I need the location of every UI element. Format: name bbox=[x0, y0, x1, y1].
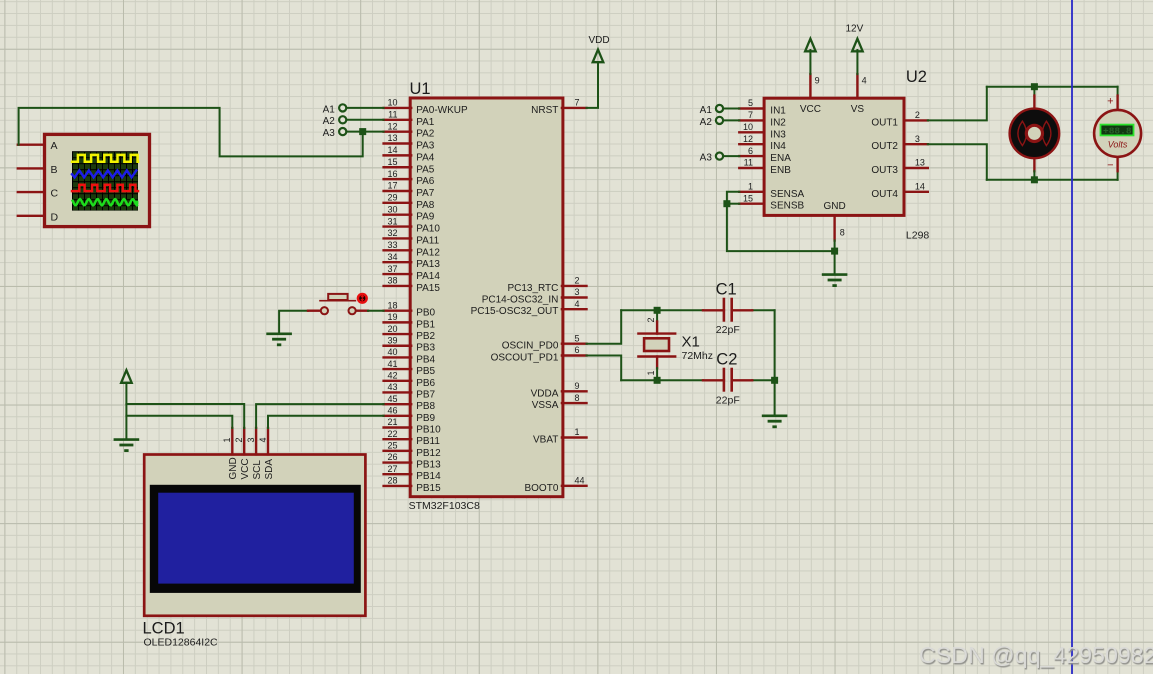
svg-text:13: 13 bbox=[915, 158, 925, 168]
wire terminal A3 to U2 bbox=[723, 155, 739, 157]
svg-text:U2: U2 bbox=[906, 68, 927, 86]
U1 pin 39 PB3 stub bbox=[384, 345, 412, 347]
power symbol arrow above VCC bbox=[805, 39, 816, 52]
svg-text:44: 44 bbox=[575, 476, 585, 486]
node junction crystal top bbox=[654, 307, 661, 314]
node junction GND net bbox=[831, 248, 838, 255]
voltmeter body bbox=[1094, 110, 1141, 157]
U1 pin 12 PA2 stub bbox=[384, 130, 412, 132]
U1 pin 18 PB0 stub bbox=[384, 310, 412, 312]
svg-text:C: C bbox=[51, 188, 59, 200]
svg-text:PC13_RTC: PC13_RTC bbox=[507, 283, 558, 294]
wire U2 GND pin down bbox=[834, 241, 836, 275]
svg-text:ENA: ENA bbox=[770, 153, 791, 164]
LCD1 pin 3 stub bbox=[255, 428, 257, 454]
svg-text:17: 17 bbox=[387, 181, 397, 191]
U1 pin 22 PB11 stub bbox=[384, 438, 412, 440]
svg-text:PA11: PA11 bbox=[416, 235, 439, 246]
wire voltmeter bottom rise bbox=[1117, 171, 1119, 180]
svg-text:PA12: PA12 bbox=[416, 247, 440, 258]
svg-text:PC15-OSC32_OUT: PC15-OSC32_OUT bbox=[471, 306, 559, 317]
wire LCD VCC branch bbox=[126, 404, 244, 428]
oscilloscope waveform channel B blue triangle bbox=[72, 170, 136, 177]
svg-text:A1: A1 bbox=[700, 105, 713, 116]
svg-text:X1: X1 bbox=[682, 333, 700, 350]
svg-text:−: − bbox=[1107, 160, 1113, 172]
node junction right rail bottom bbox=[771, 377, 778, 384]
U2 pin 1 SENSA stub bbox=[739, 191, 764, 193]
oscilloscope screen background bbox=[72, 151, 138, 210]
ground symbol crystal network bbox=[762, 416, 788, 427]
svg-text:72Mhz: 72Mhz bbox=[682, 350, 714, 362]
svg-text:2: 2 bbox=[575, 276, 580, 286]
wire U2 OUT2 to motor bottom rail bbox=[928, 144, 987, 180]
node junction SENSB bbox=[723, 200, 730, 207]
svg-text:22: 22 bbox=[387, 429, 397, 439]
wire U2 VCC to power arrow bbox=[809, 50, 811, 74]
wire terminal A3 to U1 bbox=[347, 131, 384, 133]
U2 pin 2 OUT1 stub bbox=[904, 119, 928, 121]
motor hub bbox=[1026, 125, 1042, 141]
svg-text:PA7: PA7 bbox=[416, 188, 435, 199]
svg-text:29: 29 bbox=[387, 193, 397, 203]
svg-text:PA3: PA3 bbox=[416, 141, 435, 152]
U1 pin 34 PA13 stub bbox=[384, 261, 412, 263]
U1 pin 14 PA4 stub bbox=[384, 154, 412, 156]
blue page divider line bbox=[1071, 0, 1073, 674]
svg-text:+88.8: +88.8 bbox=[1103, 126, 1132, 137]
wire U1 PB8 to LCD SCL bbox=[256, 404, 384, 428]
U2 pin 11 ENB stub bbox=[739, 167, 764, 169]
terminal A3 near U2 bbox=[716, 153, 723, 160]
power symbol arrow at LCD supply bbox=[121, 370, 132, 383]
U1 pin 37 PA14 stub bbox=[384, 273, 412, 275]
U2 pin 6 ENA stub bbox=[739, 155, 764, 157]
U1 pin 28 PB15 stub bbox=[384, 485, 412, 487]
U1 pin 15 PA5 stub bbox=[384, 166, 412, 168]
U1 pin 6 OSCOUT_PD1 stub bbox=[562, 354, 587, 356]
capacitor C1 left lead bbox=[703, 309, 724, 311]
svg-text:21: 21 bbox=[387, 417, 397, 427]
motor top pin stub bbox=[1033, 96, 1035, 110]
U1 pin 32 PA11 stub bbox=[384, 237, 412, 239]
svg-text:L298: L298 bbox=[906, 230, 930, 242]
LCD1 pin 2 stub bbox=[243, 428, 245, 454]
push-button left terminal bbox=[321, 307, 328, 314]
crystal X1 bottom lead wire bbox=[656, 368, 658, 380]
svg-text:PC14-OSC32_IN: PC14-OSC32_IN bbox=[482, 295, 559, 306]
svg-text:11: 11 bbox=[744, 158, 753, 168]
U2 pin 15 SENSB stub bbox=[739, 202, 764, 204]
svg-text:12V: 12V bbox=[846, 23, 864, 34]
U1 pin 7 NRST stub bbox=[562, 107, 587, 109]
wire scope channel A to A3 net bbox=[19, 108, 363, 156]
crystal X1 top pin stub bbox=[656, 322, 658, 334]
svg-text:10: 10 bbox=[743, 122, 753, 132]
U1 pin 3 PC14-OSC32_IN stub bbox=[562, 296, 587, 298]
svg-text:PA10: PA10 bbox=[416, 224, 440, 235]
svg-text:PB11: PB11 bbox=[416, 436, 440, 447]
svg-text:PB8: PB8 bbox=[416, 401, 435, 412]
ground symbol U2 bbox=[822, 275, 848, 286]
svg-text:C2: C2 bbox=[716, 351, 737, 369]
capacitor C1 left plate bbox=[723, 299, 726, 320]
svg-text:1: 1 bbox=[575, 427, 580, 437]
svg-text:4: 4 bbox=[258, 437, 268, 442]
wire C2 right to right rail bbox=[752, 379, 774, 381]
svg-text:A2: A2 bbox=[700, 117, 713, 128]
voltmeter bottom pin stub bbox=[1116, 156, 1118, 171]
U1 pin 10 PA0-WKUP stub bbox=[384, 107, 412, 109]
wire top rail bbox=[987, 86, 1118, 88]
svg-text:5: 5 bbox=[748, 98, 753, 108]
capacitor C1 right lead bbox=[732, 309, 753, 311]
wire top rail to C1 left lead bbox=[621, 309, 703, 311]
oscilloscope component body bbox=[45, 134, 150, 226]
wire bottom rail to C2 left lead bbox=[621, 379, 703, 381]
svg-text:PA15: PA15 bbox=[416, 283, 440, 294]
svg-text:14: 14 bbox=[387, 145, 397, 155]
svg-text:IN1: IN1 bbox=[770, 106, 786, 117]
LCD1 module body bbox=[144, 455, 365, 616]
svg-text:28: 28 bbox=[387, 476, 397, 486]
svg-text:VCC: VCC bbox=[800, 104, 821, 115]
U2 VCC pin 9 stub bbox=[809, 74, 811, 98]
U1 pin 21 PB10 stub bbox=[384, 426, 412, 428]
svg-text:25: 25 bbox=[387, 441, 397, 451]
svg-text:7: 7 bbox=[575, 98, 580, 108]
motor bottom green lead bbox=[1033, 171, 1035, 180]
LCD1 screen black bezel bbox=[150, 485, 361, 593]
svg-text:OLED12864I2C: OLED12864I2C bbox=[144, 636, 219, 648]
svg-text:7: 7 bbox=[748, 110, 753, 120]
terminal A2 near U1 bbox=[339, 116, 346, 123]
svg-text:2: 2 bbox=[234, 437, 244, 442]
svg-text:27: 27 bbox=[387, 464, 397, 474]
oscilloscope waveform channel C red square bbox=[72, 185, 138, 191]
svg-text:PB10: PB10 bbox=[416, 425, 441, 436]
svg-text:IN4: IN4 bbox=[770, 141, 786, 152]
U2 pin 5 IN1 stub bbox=[739, 107, 764, 109]
oscilloscope waveform channel D green sine bbox=[72, 199, 138, 205]
svg-text:U1: U1 bbox=[410, 80, 431, 98]
ground symbol below button bbox=[266, 334, 292, 345]
svg-text:1: 1 bbox=[748, 182, 753, 192]
wire C1 right to right rail bbox=[752, 309, 774, 311]
U1 pin 4 PC15-OSC32_OUT stub bbox=[562, 308, 587, 310]
capacitor C2 right plate bbox=[730, 369, 733, 390]
U1 pin 13 PA3 stub bbox=[384, 142, 412, 144]
svg-text:37: 37 bbox=[387, 264, 397, 274]
U1 pin 27 PB14 stub bbox=[384, 473, 412, 475]
svg-text:PA8: PA8 bbox=[416, 200, 435, 211]
svg-text:20: 20 bbox=[387, 324, 397, 334]
svg-text:PA4: PA4 bbox=[416, 152, 435, 163]
svg-text:LCD1: LCD1 bbox=[143, 620, 185, 638]
motor right brush arc bbox=[1042, 121, 1051, 145]
U1 pin 38 PA15 stub bbox=[384, 285, 412, 287]
svg-text:VDDA: VDDA bbox=[531, 388, 559, 399]
svg-text:ENB: ENB bbox=[770, 165, 791, 176]
U1 pin 42 PB6 stub bbox=[384, 380, 412, 382]
svg-text:PB1: PB1 bbox=[416, 319, 435, 330]
svg-text:14: 14 bbox=[915, 182, 925, 192]
svg-text:Volts: Volts bbox=[1108, 140, 1128, 150]
svg-text:VBAT: VBAT bbox=[533, 435, 558, 446]
voltmeter display bbox=[1101, 125, 1134, 136]
wire terminal A1 to U2 bbox=[723, 108, 739, 110]
oscilloscope green trace end marker bbox=[135, 201, 139, 205]
svg-text:PB5: PB5 bbox=[416, 366, 435, 377]
node junction motor top bbox=[1031, 83, 1038, 90]
svg-text:GND: GND bbox=[228, 457, 239, 479]
U1 pin 31 PA10 stub bbox=[384, 225, 412, 227]
wire U1 OSCIN_PD0 to crystal top rail bbox=[587, 310, 622, 343]
svg-text:33: 33 bbox=[387, 240, 397, 250]
terminal A3 near U1 bbox=[339, 128, 346, 135]
power symbol VDD arrow bbox=[593, 50, 604, 63]
push-button left lead bbox=[308, 310, 320, 312]
svg-text:A2: A2 bbox=[323, 116, 336, 127]
capacitor C2 left plate bbox=[723, 369, 726, 390]
crystal X1 top lead wire bbox=[656, 310, 658, 321]
svg-text:18: 18 bbox=[387, 300, 397, 310]
svg-text:8: 8 bbox=[575, 393, 580, 403]
U1 pin 5 OSCIN_PD0 stub bbox=[562, 343, 587, 345]
U2 pin 12 IN4 stub bbox=[739, 143, 764, 145]
wire terminal A1 to U1 bbox=[347, 107, 384, 109]
wire U1 PB9 to LCD SDA bbox=[268, 416, 384, 428]
svg-text:43: 43 bbox=[387, 382, 397, 392]
svg-text:PA13: PA13 bbox=[416, 259, 440, 270]
svg-text:PB15: PB15 bbox=[416, 483, 441, 494]
svg-text:8: 8 bbox=[840, 228, 845, 238]
svg-text:26: 26 bbox=[387, 452, 397, 462]
U1 pin 33 PA12 stub bbox=[384, 249, 412, 251]
U1 pin 9 VDDA stub bbox=[562, 390, 587, 392]
svg-text:SENSB: SENSB bbox=[770, 201, 804, 212]
capacitor C1 right plate bbox=[730, 299, 733, 320]
watermark CSDN bbox=[919, 642, 1153, 669]
motor left brush arc bbox=[1018, 121, 1027, 145]
svg-text:PA0-WKUP: PA0-WKUP bbox=[416, 105, 468, 116]
svg-text:41: 41 bbox=[387, 359, 397, 369]
svg-text:PB14: PB14 bbox=[416, 471, 441, 482]
svg-text:2: 2 bbox=[915, 110, 920, 120]
svg-text:PB7: PB7 bbox=[416, 389, 435, 400]
svg-text:OUT1: OUT1 bbox=[871, 117, 898, 128]
motor body bbox=[1010, 109, 1060, 159]
U2 VS pin 4 stub bbox=[856, 74, 858, 98]
svg-text:16: 16 bbox=[387, 169, 397, 179]
svg-text:BOOT0: BOOT0 bbox=[524, 483, 558, 494]
power symbol arrow 12V bbox=[852, 39, 863, 52]
svg-text:22pF: 22pF bbox=[716, 395, 740, 407]
svg-text:30: 30 bbox=[387, 204, 397, 214]
wire bottom rail bbox=[987, 179, 1118, 181]
svg-text:10: 10 bbox=[387, 98, 397, 108]
svg-text:VDD: VDD bbox=[588, 35, 609, 46]
node junction on A3 wire bbox=[359, 128, 366, 135]
wire U2 OUT1 to motor top rail bbox=[928, 87, 987, 121]
svg-text:VS: VS bbox=[851, 104, 865, 115]
svg-text:A1: A1 bbox=[323, 104, 336, 115]
wire LCD GND branch bbox=[126, 416, 232, 428]
node junction motor bottom bbox=[1031, 176, 1038, 183]
svg-text:VCC: VCC bbox=[240, 458, 251, 479]
svg-text:A3: A3 bbox=[700, 153, 713, 164]
U1 pin 46 PB9 stub bbox=[384, 415, 412, 417]
svg-text:15: 15 bbox=[387, 157, 397, 167]
crystal X1 bottom pin stub bbox=[656, 357, 658, 369]
svg-text:9: 9 bbox=[815, 75, 820, 85]
svg-text:B: B bbox=[51, 164, 58, 176]
U1 pin 25 PB12 stub bbox=[384, 450, 412, 452]
driver U2 L298 body bbox=[764, 98, 904, 215]
wire U1 NRST to VDD power bbox=[587, 62, 599, 108]
U1 pin 2 PC13_RTC stub bbox=[562, 285, 587, 287]
U1 pin 20 PB2 stub bbox=[384, 333, 412, 335]
svg-text:39: 39 bbox=[387, 335, 397, 345]
svg-text:3: 3 bbox=[246, 437, 256, 442]
svg-text:SDA: SDA bbox=[264, 459, 275, 480]
U2 pin 10 IN3 stub bbox=[739, 131, 764, 133]
U1 pin 43 PB7 stub bbox=[384, 391, 412, 393]
U1 pin 26 PB13 stub bbox=[384, 461, 412, 463]
svg-text:IN2: IN2 bbox=[770, 117, 786, 128]
svg-text:3: 3 bbox=[575, 287, 580, 297]
svg-text:4: 4 bbox=[862, 75, 867, 85]
svg-text:+: + bbox=[1107, 96, 1113, 108]
ground symbol LCD supply bbox=[114, 440, 140, 451]
push-button actuation marker red circle bbox=[357, 293, 368, 304]
wire U2 VS to 12V power arrow bbox=[856, 50, 858, 74]
svg-text:11: 11 bbox=[388, 109, 397, 119]
svg-text:VSSA: VSSA bbox=[532, 400, 559, 411]
svg-text:PA5: PA5 bbox=[416, 164, 435, 175]
U1 pin 44 BOOT0 stub bbox=[562, 485, 587, 487]
svg-text:OUT3: OUT3 bbox=[871, 165, 898, 176]
oscilloscope pin D stub bbox=[18, 215, 45, 217]
svg-text:STM32F103C8: STM32F103C8 bbox=[409, 500, 480, 512]
wire LCD supply vertical bbox=[125, 383, 127, 439]
svg-text:OSCIN_PD0: OSCIN_PD0 bbox=[502, 341, 559, 352]
oscilloscope pin C stub bbox=[18, 191, 45, 193]
svg-text:5: 5 bbox=[575, 333, 580, 343]
svg-text:4: 4 bbox=[575, 299, 580, 309]
op-amp U1 microcontroller STM32F103C8 body bbox=[410, 98, 563, 497]
LCD1 pin 4 stub bbox=[267, 428, 269, 454]
svg-text:IN3: IN3 bbox=[770, 129, 786, 140]
U1 pin 11 PA1 stub bbox=[384, 119, 412, 121]
U2 GND pin 8 stub bbox=[833, 215, 835, 240]
svg-text:A: A bbox=[51, 140, 58, 152]
svg-text:22pF: 22pF bbox=[716, 324, 740, 336]
svg-text:13: 13 bbox=[387, 133, 397, 143]
motor bottom pin stub bbox=[1033, 157, 1035, 171]
svg-text:34: 34 bbox=[387, 252, 397, 262]
svg-text:PA2: PA2 bbox=[416, 129, 435, 140]
svg-text:45: 45 bbox=[387, 394, 397, 404]
push-button bar bbox=[320, 300, 355, 302]
svg-text:GND: GND bbox=[823, 201, 845, 212]
wire U1 OSCOUT_PD1 to bottom rail bbox=[587, 356, 622, 381]
svg-text:38: 38 bbox=[387, 276, 397, 286]
terminal A1 near U1 bbox=[339, 104, 346, 111]
svg-text:D: D bbox=[51, 211, 59, 223]
wire voltmeter top drop bbox=[1117, 87, 1119, 96]
svg-text:PB2: PB2 bbox=[416, 331, 435, 342]
wire right rail to ground bbox=[774, 380, 776, 415]
voltmeter top pin stub bbox=[1116, 96, 1118, 111]
svg-text:PB4: PB4 bbox=[416, 354, 435, 365]
wire terminal A2 to U1 bbox=[347, 119, 384, 121]
svg-text:PB3: PB3 bbox=[416, 343, 435, 354]
crystal X1 body bbox=[644, 338, 669, 351]
U2 pin 7 IN2 stub bbox=[739, 119, 764, 121]
svg-text:6: 6 bbox=[748, 146, 753, 156]
oscilloscope pin B stub bbox=[18, 167, 45, 169]
push-button right terminal bbox=[349, 307, 356, 314]
wire terminal A2 to U2 bbox=[723, 119, 739, 121]
svg-text:PA1: PA1 bbox=[416, 117, 435, 128]
svg-text:PA9: PA9 bbox=[416, 212, 435, 223]
svg-text:OSCOUT_PD1: OSCOUT_PD1 bbox=[491, 353, 559, 364]
svg-text:PA14: PA14 bbox=[416, 271, 440, 282]
LCD1 pin 1 stub bbox=[231, 428, 233, 454]
U1 pin 30 PA9 stub bbox=[384, 214, 412, 216]
svg-text:1: 1 bbox=[646, 370, 656, 375]
svg-text:12: 12 bbox=[387, 121, 397, 131]
capacitor C2 left lead bbox=[703, 379, 724, 381]
oscilloscope waveform channel A yellow square bbox=[72, 155, 138, 162]
wire button to U1 PB0 bbox=[368, 310, 384, 312]
U1 pin 29 PA8 stub bbox=[384, 202, 412, 204]
svg-text:C1: C1 bbox=[716, 281, 737, 299]
svg-text:A3: A3 bbox=[323, 128, 336, 139]
oscilloscope pin A stub bbox=[18, 143, 45, 145]
svg-text:SCL: SCL bbox=[252, 460, 263, 480]
svg-text:46: 46 bbox=[387, 406, 397, 416]
svg-text:PB0: PB0 bbox=[416, 308, 435, 319]
push-button right lead bbox=[356, 310, 368, 312]
crystal X1 bottom plate bbox=[638, 355, 675, 357]
LCD1 screen blue area bbox=[158, 493, 354, 584]
svg-text:OUT4: OUT4 bbox=[871, 189, 898, 200]
svg-text:SENSA: SENSA bbox=[770, 189, 804, 200]
U2 pin 14 OUT4 stub bbox=[904, 191, 928, 193]
svg-text:PB9: PB9 bbox=[416, 413, 435, 424]
U1 pin 40 PB4 stub bbox=[384, 356, 412, 358]
svg-text:2: 2 bbox=[646, 317, 656, 322]
svg-text:42: 42 bbox=[387, 370, 397, 380]
U1 pin 45 PB8 stub bbox=[384, 403, 412, 405]
U1 pin 17 PA7 stub bbox=[384, 190, 412, 192]
svg-text:19: 19 bbox=[387, 312, 397, 322]
svg-text:6: 6 bbox=[575, 345, 580, 355]
capacitor C2 right lead bbox=[732, 379, 753, 381]
svg-text:40: 40 bbox=[387, 347, 397, 357]
wire button to ground corner bbox=[279, 311, 308, 334]
node junction crystal bottom bbox=[654, 377, 661, 384]
svg-text:PB12: PB12 bbox=[416, 448, 441, 459]
svg-text:PA6: PA6 bbox=[416, 176, 435, 187]
svg-text:PB13: PB13 bbox=[416, 460, 441, 471]
U2 pin 13 OUT3 stub bbox=[904, 167, 928, 169]
U2 pin 3 OUT2 stub bbox=[904, 143, 928, 145]
svg-text:3: 3 bbox=[915, 134, 920, 144]
svg-text:31: 31 bbox=[387, 216, 397, 226]
